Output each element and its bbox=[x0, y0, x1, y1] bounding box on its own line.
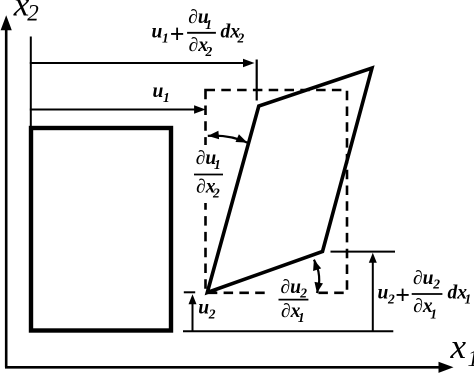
tick above u2 arrow bbox=[184, 291, 195, 293]
vertical guide line bbox=[30, 37, 32, 127]
angle arc du1/dx2 bbox=[208, 131, 248, 143]
svg-text:1: 1 bbox=[298, 310, 305, 325]
white mask behind du1/dx2 label bbox=[197, 145, 217, 203]
arrow u2 bbox=[189, 294, 197, 331]
svg-text:2: 2 bbox=[212, 186, 220, 201]
x1 axis label bbox=[450, 327, 474, 371]
svg-text:1: 1 bbox=[163, 90, 170, 105]
white mask behind du2/dx1 label bbox=[270, 288, 314, 298]
baseline extension line bbox=[183, 330, 393, 332]
svg-text:2: 2 bbox=[27, 1, 39, 26]
x1 axis bbox=[5, 362, 454, 373]
label du1/dx2 bbox=[194, 148, 223, 201]
dashed displaced rectangle bbox=[206, 90, 348, 293]
undeformed rectangle bbox=[31, 128, 171, 331]
svg-text:1: 1 bbox=[430, 306, 437, 321]
svg-text:1: 1 bbox=[465, 291, 472, 306]
svg-text:2: 2 bbox=[387, 291, 395, 306]
svg-text:1: 1 bbox=[468, 346, 474, 371]
svg-text:∂u: ∂u bbox=[281, 277, 302, 298]
svg-text:2: 2 bbox=[208, 306, 216, 321]
svg-text:1: 1 bbox=[162, 31, 169, 46]
label u1 bbox=[153, 81, 170, 105]
svg-text:2: 2 bbox=[299, 286, 307, 301]
svg-text:2: 2 bbox=[205, 44, 213, 59]
deformed parallelogram bbox=[207, 68, 372, 293]
svg-text:2: 2 bbox=[432, 277, 440, 292]
label u2 + du2/dx1 dx1 bbox=[378, 268, 472, 321]
label u1 + du1/dx2 dx2 bbox=[152, 7, 245, 59]
label du2/dx1 bbox=[279, 277, 309, 325]
angle arc du2/dx1 bbox=[313, 260, 323, 293]
label u2 bbox=[198, 297, 216, 321]
x2 axis bbox=[1, 15, 12, 367]
svg-text:1: 1 bbox=[205, 17, 212, 32]
tick at deformed bottom-right corner level bbox=[331, 251, 396, 253]
svg-text:u: u bbox=[198, 297, 209, 318]
arrow u1 + du1/dx2 dx2 bbox=[30, 59, 255, 68]
tick at deformed top-left corner position bbox=[256, 60, 258, 101]
svg-text:u: u bbox=[152, 22, 163, 43]
svg-text:+: + bbox=[170, 20, 185, 49]
x2 axis label bbox=[13, 0, 39, 26]
svg-text:+: + bbox=[395, 280, 410, 309]
arrow u1 bbox=[30, 105, 206, 114]
svg-text:u: u bbox=[153, 81, 164, 102]
svg-text:1: 1 bbox=[214, 157, 221, 172]
svg-text:u: u bbox=[378, 282, 389, 303]
svg-text:2: 2 bbox=[237, 31, 245, 46]
svg-text:x: x bbox=[450, 327, 467, 366]
svg-text:∂u: ∂u bbox=[413, 268, 434, 289]
arrow u2 + du2/dx1 dx1 bbox=[369, 253, 377, 331]
